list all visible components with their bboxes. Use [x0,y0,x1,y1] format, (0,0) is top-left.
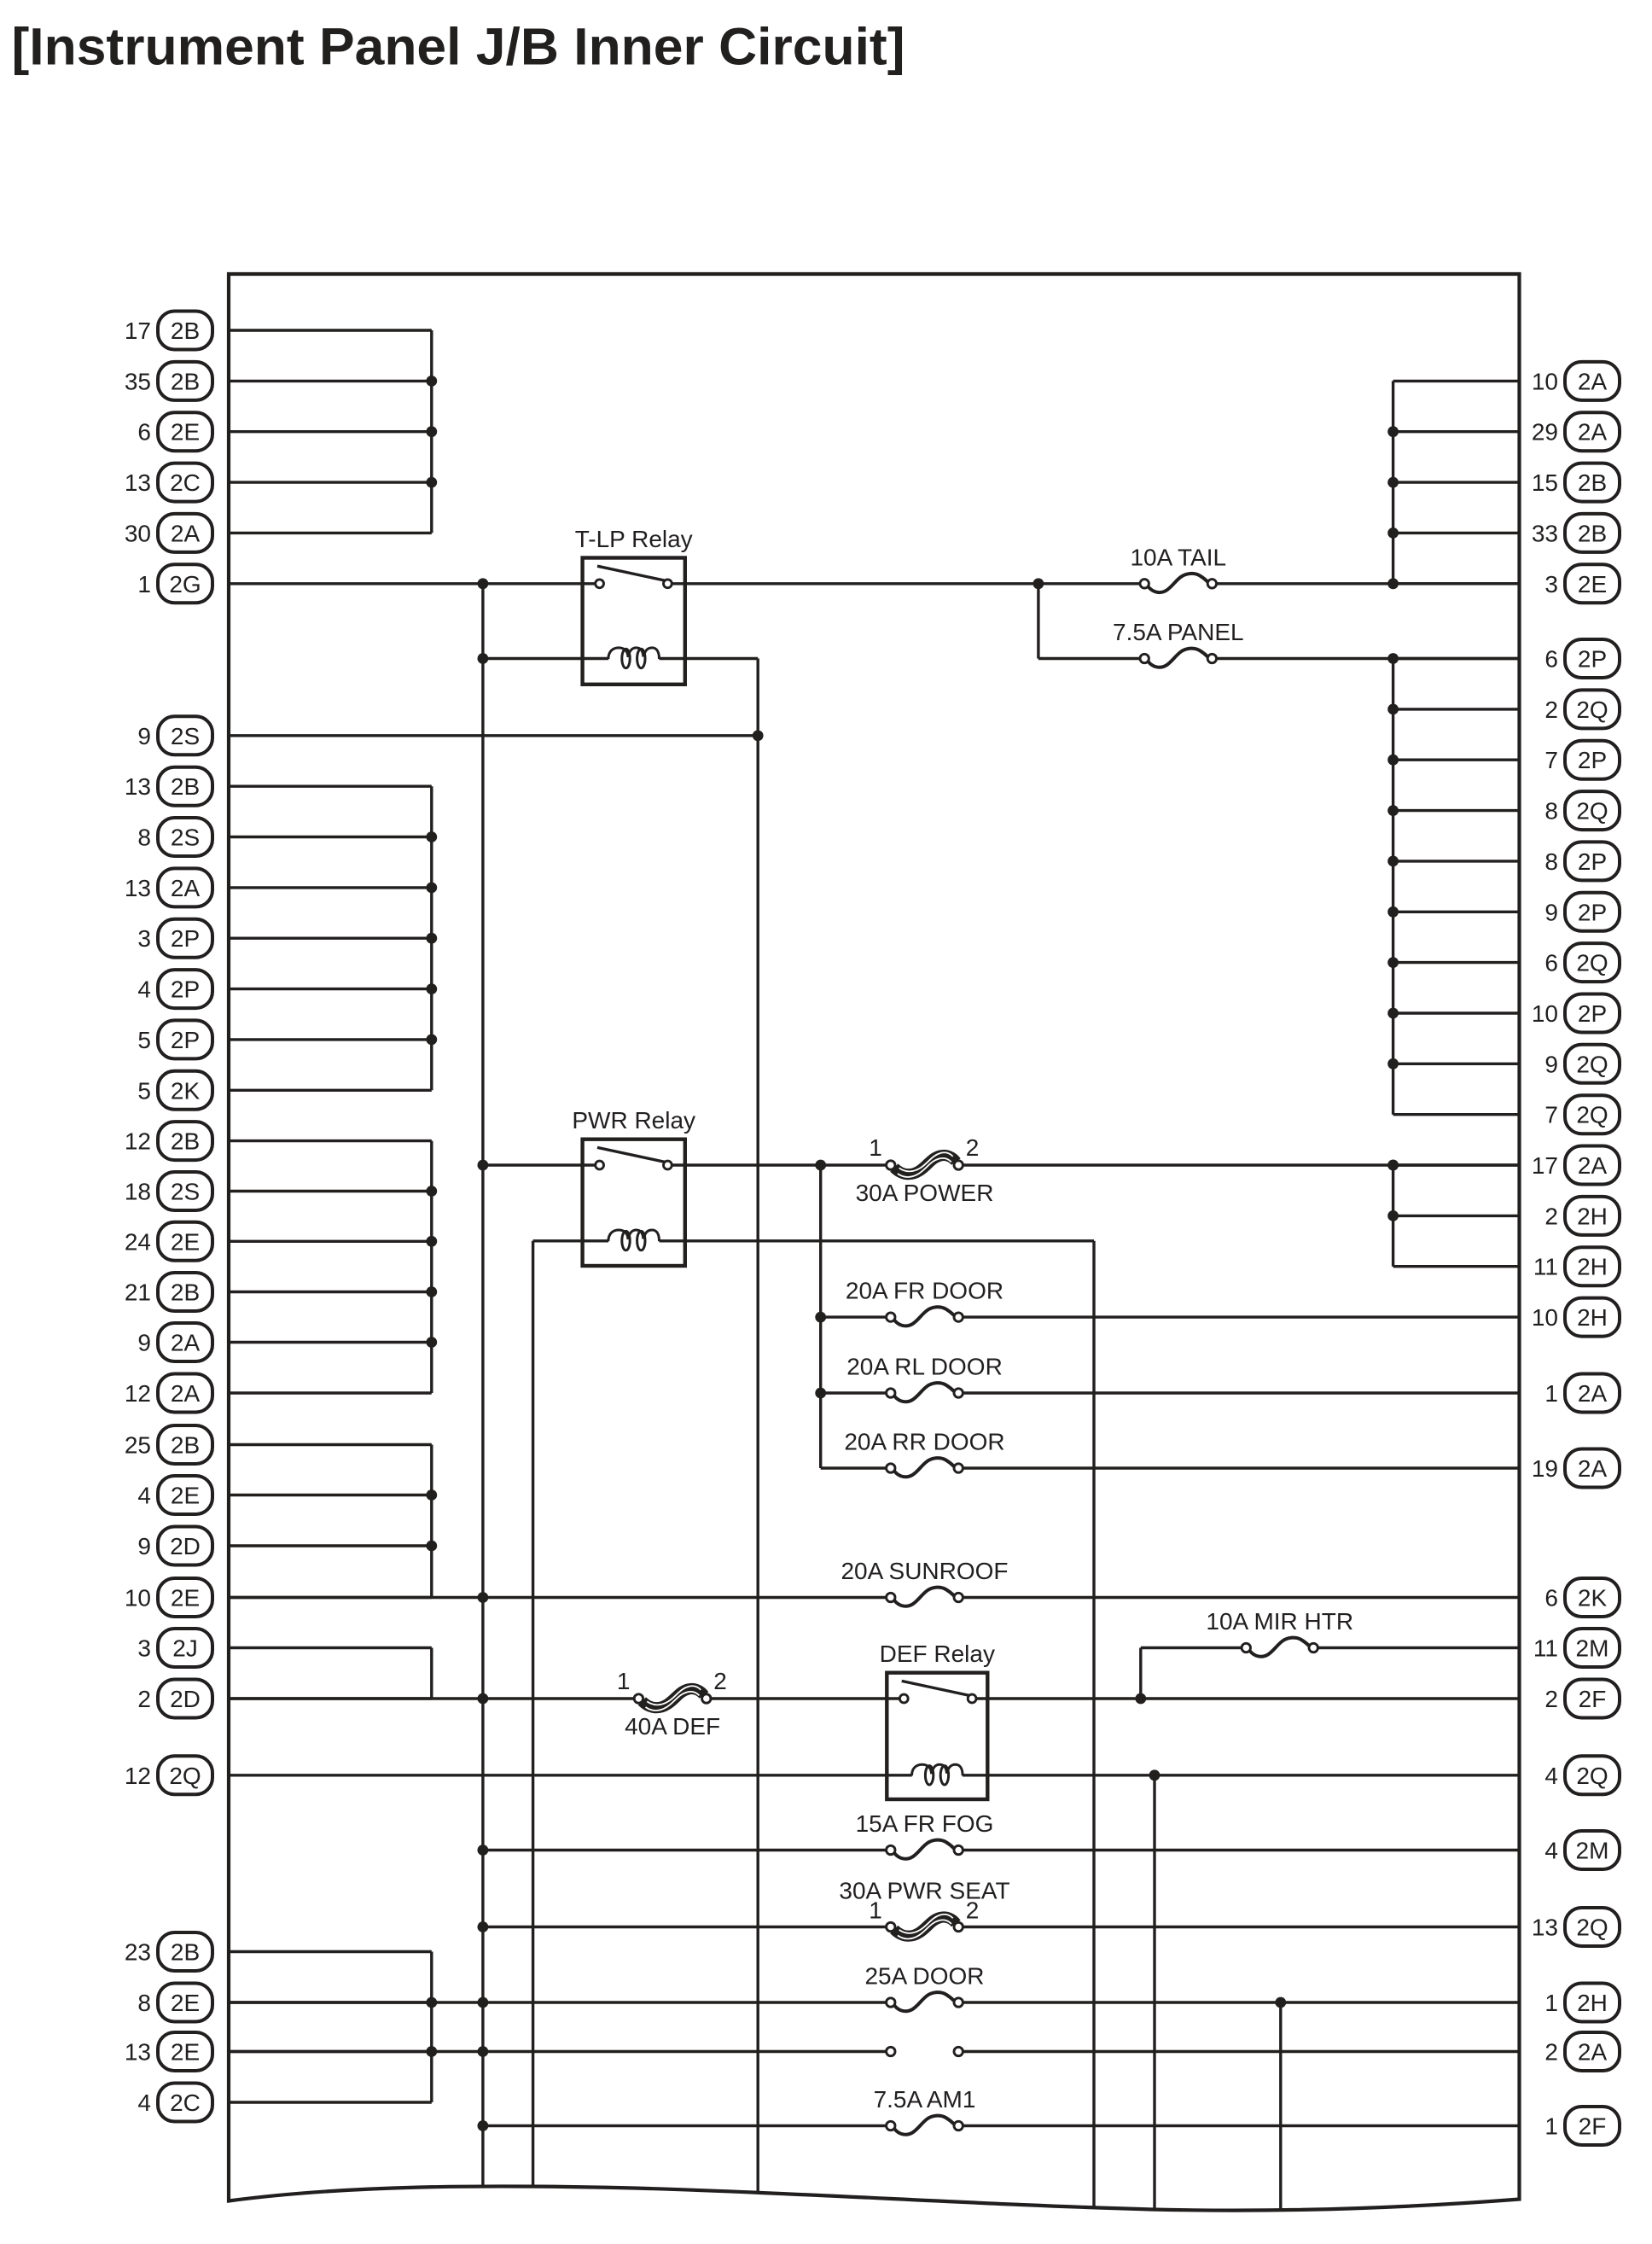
svg-text:20A RL DOOR: 20A RL DOOR [846,1354,1003,1380]
svg-text:2P: 2P [1578,848,1607,875]
svg-text:2A: 2A [1578,419,1608,446]
connector pin 12 2Q (left) [125,1756,212,1794]
svg-text:3: 3 [137,1635,151,1662]
connector pin 8 2Q (right) [1544,791,1620,830]
svg-text:2H: 2H [1577,1203,1608,1229]
wire 30A POWER link to 17 2A [958,1163,1519,1166]
svg-text:1: 1 [137,571,151,597]
svg-text:2F: 2F [1579,2113,1607,2140]
vertical wire PWR coil left to bottom [532,1241,534,2187]
svg-text:2B: 2B [1578,520,1607,546]
wire group left bus 23 2B/8 2E/13 2E/4 2C [229,1952,437,2103]
connector pin 4 2E (left) [137,1476,212,1514]
svg-text:2D: 2D [170,1533,201,1559]
svg-text:2P: 2P [1578,1000,1607,1027]
svg-text:25: 25 [125,1432,151,1459]
svg-text:2: 2 [1544,1203,1558,1229]
connector pin 19 2A (right) [1532,1449,1620,1488]
connector pin 13 2A (left) [125,868,212,906]
relay T-LP switch blade [597,566,666,580]
connector pin 7 2Q (right) [1544,1095,1620,1134]
svg-text:13: 13 [125,773,151,800]
svg-text:2P: 2P [1578,646,1607,673]
svg-text:2: 2 [713,1668,727,1694]
svg-text:DEF Relay: DEF Relay [880,1641,995,1667]
svg-text:13: 13 [1532,1915,1558,1941]
svg-text:2Q: 2Q [1576,950,1608,976]
wire group right bus 10 2A/29 2A/15 2B/33 2B/3 2E [1387,381,1519,589]
connector pin 29 2A (right) [1532,412,1620,451]
svg-text:2A: 2A [1578,1455,1608,1482]
svg-text:8: 8 [137,1990,151,2016]
connector pin 12 2B (left) [125,1122,212,1160]
svg-text:2A: 2A [171,875,201,901]
svg-text:23: 23 [125,1939,151,1966]
svg-text:2: 2 [1544,2039,1558,2066]
connector pin 17 2A (right) [1532,1146,1620,1185]
svg-text:9: 9 [1544,1051,1558,1077]
wire PWR relay to 30A POWER link [672,1163,891,1166]
svg-text:6: 6 [1544,950,1558,976]
svg-text:T-LP Relay: T-LP Relay [575,526,693,552]
connector pin 24 2E (left) [125,1222,212,1261]
wire 20A SUNROOF to 6 2K [958,1596,1519,1599]
svg-text:2C: 2C [170,2090,201,2116]
svg-text:20A RR DOOR: 20A RR DOOR [844,1429,1004,1455]
wire 30A PWR SEAT row [478,1921,489,1932]
svg-text:10: 10 [1532,368,1558,394]
connector pin 13 2Q (right) [1532,1908,1620,1946]
svg-text:2H: 2H [1577,1990,1608,2016]
relay DEF switch contacts [899,1694,976,1703]
connector pin 6 2Q (right) [1544,943,1620,982]
connector pin 8 2E (left) [137,1984,212,2022]
svg-text:35: 35 [125,368,151,394]
svg-text:9: 9 [137,723,151,749]
svg-text:33: 33 [1532,520,1558,546]
svg-text:2J: 2J [172,1635,198,1662]
svg-text:2E: 2E [171,1990,200,2016]
connector pin 9 2P (right) [1544,893,1620,931]
connector pin 1 2A (right) [1544,1374,1620,1413]
svg-text:18: 18 [125,1179,151,1205]
wire T-LP relay to 10A TAIL fuse [672,582,1144,585]
connector pin 5 2K (left) [137,1071,212,1110]
wire 15A FR FOG row [478,1845,489,1856]
connector pin 2 2A (right) [1544,2032,1620,2071]
svg-text:2S: 2S [171,723,200,749]
connector pin 9 2A (left) [137,1323,212,1361]
svg-text:2H: 2H [1577,1254,1608,1280]
connector pin 6 2E (left) [137,412,212,451]
svg-text:4: 4 [137,2090,151,2116]
svg-text:20A FR DOOR: 20A FR DOOR [846,1278,1003,1304]
svg-text:30A POWER: 30A POWER [856,1180,994,1206]
connector pin 9 2D (left) [137,1527,212,1565]
svg-text:2H: 2H [1577,1304,1608,1331]
svg-text:2Q: 2Q [1576,1763,1608,1789]
wire 2 2D to 40A DEF link [229,1697,638,1699]
svg-text:2D: 2D [170,1686,201,1712]
wire PWR coil left [533,1239,609,1242]
relay PWR switch contacts [596,1161,672,1169]
connector pin 35 2B (left) [125,362,212,400]
svg-text:2B: 2B [171,318,200,344]
svg-text:1: 1 [1544,1990,1558,2016]
connector pin 2 2D (left) [137,1680,212,1718]
connector pin 1 2G (left) [137,564,212,603]
svg-text:5: 5 [137,1077,151,1104]
vertical wire T-LP coil to bottom [757,659,759,2193]
svg-text:40A DEF: 40A DEF [625,1713,720,1740]
svg-text:2A: 2A [171,1380,201,1407]
svg-text:4: 4 [1544,1763,1558,1789]
fuse 10A MIR HTR [1242,1638,1318,1657]
svg-text:2P: 2P [171,976,200,1003]
svg-text:8: 8 [137,825,151,851]
svg-text:2A: 2A [171,1330,201,1356]
svg-text:7.5A AM1: 7.5A AM1 [874,2086,976,2113]
svg-text:11: 11 [1533,1635,1558,1662]
wire DEF coil to 4 2Q [963,1774,1520,1776]
connector pin 9 2Q (right) [1544,1045,1620,1083]
connector pin 11 2H (right) [1533,1247,1620,1285]
svg-text:2A: 2A [1578,1380,1608,1407]
svg-text:1: 1 [1544,1380,1558,1407]
svg-text:2M: 2M [1576,1635,1609,1662]
wire 10A TAIL fuse to 3 2E [1212,582,1519,585]
svg-text:2E: 2E [171,1483,200,1509]
connector pin 1 2H (right) [1544,1984,1620,2022]
wire branch to 7.5A PANEL [1037,584,1039,659]
svg-text:2A: 2A [1578,1152,1608,1179]
svg-text:2B: 2B [171,1279,200,1306]
main vertical bus from 1 2G [481,584,484,2186]
svg-text:2K: 2K [171,1077,201,1104]
connector pin 3 2P (left) [137,919,212,958]
svg-text:2A: 2A [1578,368,1608,394]
wire 9 2S [229,734,758,737]
svg-text:10: 10 [1532,1000,1558,1027]
connector pin 4 2Q (right) [1544,1756,1620,1794]
svg-text:4: 4 [137,1483,151,1509]
connector pin 3 2J (left) [137,1629,212,1667]
svg-text:2B: 2B [1578,469,1607,496]
svg-text:2P: 2P [171,925,200,952]
svg-text:19: 19 [1532,1455,1558,1482]
svg-text:11: 11 [1533,1254,1558,1280]
svg-text:2Q: 2Q [1576,1102,1608,1128]
connector pin 4 2M (right) [1544,1831,1620,1869]
svg-text:1: 1 [617,1668,631,1694]
wire bus to PWR relay [483,1163,595,1166]
fuse 20A FR DOOR [887,1307,963,1326]
connector pin 10 2E (left) [125,1578,212,1617]
svg-text:2A: 2A [1578,2039,1608,2066]
svg-text:17: 17 [125,318,151,344]
svg-text:2Q: 2Q [169,1763,201,1789]
relay T-LP switch contacts [596,580,672,588]
vertical wire PWR coil right to bottom [1092,1241,1095,2207]
wire group right bus 6 2P/2 2Q/7 2P/8 2Q/8 2P/9 2P/6 2Q/10 2P/9 2Q/7 2Q [1387,653,1519,1115]
svg-text:2E: 2E [171,2039,200,2066]
svg-text:7: 7 [1544,1102,1558,1128]
wire 1 2G to T-LP relay [229,582,595,585]
svg-text:9: 9 [137,1330,151,1356]
junction box outline [229,274,1520,2211]
svg-text:2E: 2E [1578,571,1607,597]
wire empty fuse to 2 2A [958,2050,1519,2053]
fuse 25A DOOR [887,1992,963,2011]
svg-text:2P: 2P [1578,747,1607,773]
svg-text:5: 5 [137,1027,151,1053]
svg-text:13: 13 [125,469,151,496]
svg-text:2E: 2E [171,1228,200,1255]
svg-text:1: 1 [1544,2113,1558,2140]
connector pin 4 2P (left) [137,970,212,1008]
connector pin 10 2A (right) [1532,362,1620,400]
wire group right bus 17 2A/2 2H/11 2H [1387,1160,1519,1267]
svg-text:10A TAIL: 10A TAIL [1130,544,1226,570]
svg-text:15: 15 [1532,469,1558,496]
svg-text:2S: 2S [171,1179,200,1205]
svg-text:6: 6 [1544,646,1558,673]
connector pin 7 2P (right) [1544,741,1620,779]
connector pin 3 2E (right) [1544,564,1620,603]
svg-text:PWR Relay: PWR Relay [572,1107,695,1134]
connector pin 18 2S (left) [125,1172,212,1210]
relay T-LP box [583,558,685,685]
svg-text:2Q: 2Q [1576,798,1608,825]
svg-text:2B: 2B [171,1939,200,1966]
svg-text:2K: 2K [1578,1585,1608,1612]
svg-text:13: 13 [125,2039,151,2066]
relay PWR box [583,1139,685,1266]
svg-text:25A DOOR: 25A DOOR [864,1963,984,1990]
wire group left bus 17 2B/35 2B/6 2E/13 2C/30 2A [229,330,437,533]
connector pin 6 2K (right) [1544,1578,1620,1617]
wire 7.5A PANEL fuse to 6 2P [1212,657,1519,660]
svg-text:7.5A PANEL: 7.5A PANEL [1113,619,1244,645]
connector pin 10 2H (right) [1532,1298,1620,1337]
svg-text:2Q: 2Q [1576,697,1608,723]
svg-text:6: 6 [1544,1585,1558,1612]
svg-text:[Instrument Panel J/B Inner Ci: [Instrument Panel J/B Inner Circuit] [12,18,905,76]
wire 40A DEF link to DEF relay [707,1697,899,1699]
svg-text:2B: 2B [171,1128,200,1155]
connector pin 13 2B (left) [125,767,212,806]
wire PWR coil right [660,1239,1095,1242]
svg-text:9: 9 [1544,899,1558,925]
connector pin 12 2A (left) [125,1374,212,1413]
connector pin 2 2Q (right) [1544,690,1620,728]
svg-text:13: 13 [125,875,151,901]
wire 10A MIR HTR left leg [1141,1647,1247,1649]
wire group left bus 3 2J/2 2D [229,1648,432,1699]
svg-text:2P: 2P [1578,899,1607,925]
svg-text:2C: 2C [170,469,201,496]
wire T-LP coil right [660,657,759,660]
wire 7.5A AM1 row [478,2120,489,2131]
connector pin 9 2S (left) [137,716,212,755]
connector pin 15 2B (right) [1532,463,1620,502]
connector pin 30 2A (left) [125,514,212,552]
svg-text:2: 2 [137,1686,151,1712]
connector pin 13 2E (left) [125,2032,212,2071]
vertical wire 4 2Q row to bottom [1153,1775,1155,2209]
wire 25A DOOR fuse to 1 2H [958,2001,1519,2003]
svg-text:2Q: 2Q [1576,1915,1608,1941]
vertical wire 1 2H row to bottom [1279,2002,1282,2212]
svg-text:12: 12 [125,1128,151,1155]
svg-text:2B: 2B [171,773,200,800]
svg-text:2Q: 2Q [1576,1051,1608,1077]
connector pin 11 2M (right) [1533,1629,1620,1667]
fuse 7.5A PANEL [1140,649,1217,667]
svg-text:15A FR FOG: 15A FR FOG [856,1810,994,1837]
fusible link 40A DEF [617,1668,727,1740]
connector pin 8 2S (left) [137,818,212,856]
svg-text:2E: 2E [171,419,200,446]
wire 8 2E to 25A DOOR fuse [229,2001,891,2003]
fuse 7.5A AM1 [887,2116,963,2135]
svg-text:2P: 2P [171,1027,200,1053]
wire DEF relay to 2 2F [976,1697,1519,1699]
connector pin 2 2F (right) [1544,1680,1620,1718]
svg-text:2: 2 [1544,1686,1558,1712]
svg-text:6: 6 [137,419,151,446]
svg-text:9: 9 [137,1533,151,1559]
svg-text:12: 12 [125,1380,151,1407]
svg-text:10: 10 [125,1585,151,1612]
svg-text:17: 17 [1532,1152,1558,1179]
relay PWR coil [608,1230,660,1250]
svg-text:2B: 2B [171,368,200,394]
wire 13 2E to empty fuse [229,2050,891,2053]
connector pin 8 2P (right) [1544,842,1620,880]
svg-text:8: 8 [1544,848,1558,875]
relay DEF box [887,1673,987,1799]
relay DEF switch blade [902,1681,970,1695]
wire group left bus 25 2B/4 2E/9 2D/10 2E [229,1445,437,1598]
wire 10A MIR HTR to 11 2M [1313,1647,1519,1649]
wire 20A RL DOOR row [815,1388,826,1399]
fuse 20A RR DOOR [887,1458,963,1477]
connector pin 21 2B (left) [125,1273,212,1311]
relay T-LP coil [608,648,660,668]
svg-text:24: 24 [125,1228,151,1255]
svg-text:2F: 2F [1579,1686,1607,1712]
wire 12 2Q to DEF coil [229,1774,912,1776]
svg-text:30A PWR SEAT: 30A PWR SEAT [839,1878,1009,1904]
svg-text:2B: 2B [171,1432,200,1459]
connector pin 6 2P (right) [1544,639,1620,678]
fuse 20A RL DOOR [887,1383,963,1402]
svg-text:2G: 2G [169,571,201,597]
relay DEF coil [912,1764,963,1785]
svg-text:12: 12 [125,1763,151,1789]
svg-text:2: 2 [966,1134,980,1161]
svg-text:8: 8 [1544,798,1558,825]
wire group left bus 12 2B/18 2S/24 2E/21 2B/9 2A/12 2A [229,1141,437,1393]
svg-text:29: 29 [1532,419,1558,446]
svg-text:20A SUNROOF: 20A SUNROOF [841,1558,1008,1584]
wire 20A FR DOOR row [815,1312,826,1323]
svg-text:1: 1 [869,1134,882,1161]
svg-text:2M: 2M [1576,1838,1609,1864]
svg-text:21: 21 [125,1279,151,1306]
svg-text:2: 2 [1544,697,1558,723]
vertical bus to door fuses [819,1165,822,1468]
connector pin 17 2B (left) [125,312,212,350]
fuse 10A TAIL [1140,574,1217,592]
svg-text:2E: 2E [171,1585,200,1612]
fuse 20A SUNROOF [887,1588,963,1606]
svg-text:3: 3 [1544,571,1558,597]
wire 10 2E to 20A SUNROOF [229,1596,891,1599]
svg-text:2A: 2A [171,520,201,546]
connector pin 25 2B (left) [125,1425,212,1464]
relay PWR switch blade [597,1147,666,1162]
svg-text:7: 7 [1544,747,1558,773]
connector pin 23 2B (left) [125,1932,212,1971]
svg-text:10A MIR HTR: 10A MIR HTR [1206,1608,1353,1635]
svg-text:3: 3 [137,925,151,952]
wire 20A RR DOOR row [821,1466,891,1469]
fusible link 30A PWR SEAT [869,1897,979,1939]
empty fuse terminals [887,2047,895,2055]
connector pin 13 2C (left) [125,463,212,502]
wire group left bus 13 2B/8 2S/13 2A/3 2P/4 2P/5 2P/5 2K [229,786,437,1090]
connector pin 4 2C (left) [137,2084,212,2122]
svg-text:10: 10 [1532,1304,1558,1331]
svg-text:4: 4 [137,976,151,1003]
connector pin 10 2P (right) [1532,994,1620,1033]
connector pin 1 2F (right) [1544,2107,1620,2145]
wire T-LP coil left [483,657,608,660]
connector pin 2 2H (right) [1544,1197,1620,1235]
connector pin 5 2P (left) [137,1020,212,1058]
svg-text:2S: 2S [171,825,200,851]
connector pin 33 2B (right) [1532,514,1620,552]
fusible link 30A POWER [856,1134,994,1206]
svg-text:4: 4 [1544,1838,1558,1864]
svg-text:30: 30 [125,520,151,546]
fuse 15A FR FOG [887,1840,963,1859]
